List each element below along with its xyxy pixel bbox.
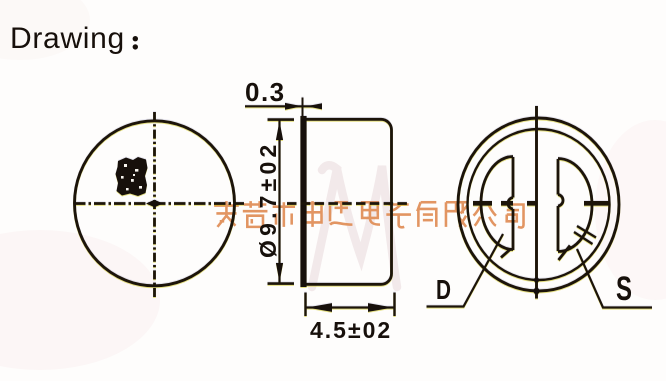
svg-text:Ø9.7±02: Ø9.7±02 bbox=[255, 141, 281, 258]
svg-text:D: D bbox=[436, 274, 451, 305]
svg-text:0.3: 0.3 bbox=[245, 77, 286, 107]
svg-text:4.5±02: 4.5±02 bbox=[310, 317, 392, 343]
svg-text:S: S bbox=[616, 270, 632, 308]
svg-text:Drawing: Drawing bbox=[10, 22, 125, 55]
